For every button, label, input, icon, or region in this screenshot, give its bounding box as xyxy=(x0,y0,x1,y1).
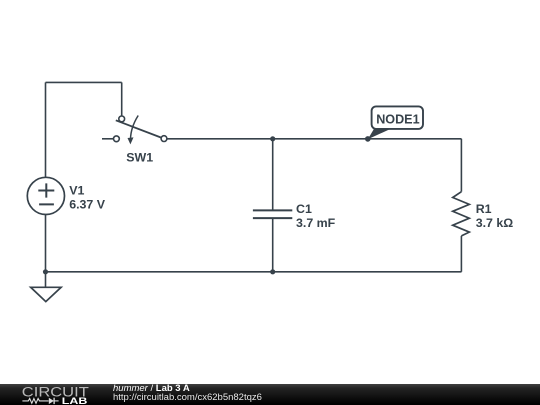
capacitor C1 xyxy=(253,210,292,218)
SW1 top terminal xyxy=(119,116,125,122)
svg-text:3.7 kΩ: 3.7 kΩ xyxy=(476,216,514,230)
SW1 toggle arrow xyxy=(131,116,139,140)
svg-text:6.37 V: 6.37 V xyxy=(69,197,106,211)
footer text xyxy=(113,384,262,403)
ground xyxy=(31,272,61,302)
junction dot at ground xyxy=(43,269,48,274)
wire C1 top lead xyxy=(272,139,274,210)
wire V1 bottom to bottom rail xyxy=(45,215,47,272)
footer bar xyxy=(0,384,540,405)
node NODE1 junction dot xyxy=(365,136,371,142)
junction dot at C1 top xyxy=(270,136,275,141)
svg-text:V1: V1 xyxy=(69,183,84,197)
svg-text:NODE1: NODE1 xyxy=(376,113,419,127)
svg-text:LAB: LAB xyxy=(62,396,88,405)
wire top rail (switch to right corner) xyxy=(167,138,462,140)
wire top-left vertical (V1 top to corner) xyxy=(45,82,47,177)
wire bottom rail xyxy=(46,271,462,273)
wire top-left horizontal xyxy=(46,81,122,83)
svg-text:R1: R1 xyxy=(476,202,492,216)
wire right vertical top (to R1) xyxy=(460,139,462,192)
svg-text:SW1: SW1 xyxy=(126,150,153,164)
wire right vertical bottom (R1 to bottom rail) xyxy=(460,236,462,272)
resistor R1 xyxy=(453,192,470,236)
wire C1 bottom lead xyxy=(272,218,274,271)
svg-text:3.7 mF: 3.7 mF xyxy=(296,216,336,230)
SW1 blade xyxy=(116,120,161,137)
CircuitLab logo xyxy=(0,384,110,405)
switch SW1 xyxy=(102,116,167,145)
NODE1 flag tail xyxy=(368,128,393,139)
wire down to switch top terminal xyxy=(121,82,123,116)
label R1 value xyxy=(476,202,514,230)
NODE1 flag box xyxy=(372,106,423,128)
SW1 left throw terminal xyxy=(114,136,120,142)
SW1 left throw terminal stub xyxy=(102,138,114,140)
svg-text:C1: C1 xyxy=(296,202,312,216)
voltage source V1 xyxy=(27,177,64,214)
junction dot at C1 bottom xyxy=(270,269,275,274)
SW1 right common terminal xyxy=(161,136,167,142)
label C1 value xyxy=(296,202,336,230)
label V1 value xyxy=(69,183,106,211)
